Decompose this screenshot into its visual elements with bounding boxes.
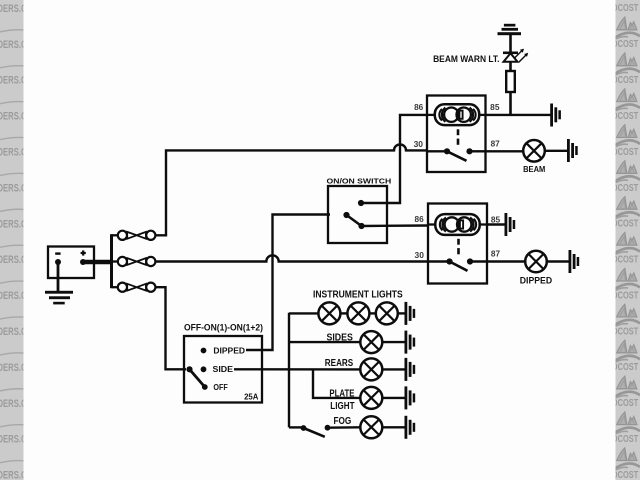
wire main distribution vertical	[288, 313, 290, 428]
svg-text:OCOST: OCOST	[612, 39, 639, 50]
wire F1 to relay1 pin 30 (with hop over 86 wire)	[155, 144, 427, 235]
wire F2 to relay2 pin 30	[155, 255, 428, 261]
wire F3 to OFF-ON switch common	[155, 287, 186, 369]
fuse F2 (dipped circuit)	[112, 257, 156, 266]
svg-text:BEAM: BEAM	[523, 165, 545, 174]
ground chassis fog row	[405, 416, 416, 439]
switch S1 ON/ON box	[328, 186, 387, 243]
svg-text:ON/ON SWITCH: ON/ON SWITCH	[327, 177, 392, 186]
relay U2 pin labels	[415, 215, 501, 260]
ground earth above warn light	[498, 24, 522, 35]
wire battery plus to fuse bus (thick)	[83, 260, 113, 265]
wire fog switch to fog lamp	[328, 426, 361, 429]
svg-text:OCOST: OCOST	[612, 326, 639, 337]
wire DIPPED terminal to ON/ON common (with hop over F2 wire)	[246, 215, 330, 351]
lamp instrument 1	[318, 302, 340, 324]
svg-text:86: 86	[414, 103, 424, 112]
wire battery minus to ground	[57, 262, 60, 292]
svg-text:DERS.C: DERS.C	[0, 398, 27, 410]
svg-text:OCOST: OCOST	[612, 398, 639, 409]
relay U2 contact 30-87	[428, 258, 487, 270]
svg-text:DERS.C: DERS.C	[0, 75, 27, 87]
resistor R1 (warn light dropper)	[506, 71, 515, 92]
svg-text:DERS.C: DERS.C	[0, 362, 27, 374]
svg-text:85: 85	[491, 216, 501, 225]
svg-text:FOG: FOG	[334, 415, 352, 427]
svg-text:DERS.C: DERS.C	[0, 3, 27, 15]
ground battery earth	[45, 291, 73, 305]
svg-text:OCOST: OCOST	[612, 219, 639, 230]
relay U2 dashed link	[457, 239, 460, 255]
svg-text:86: 86	[415, 215, 425, 224]
wire relay1 pin 86 to ON/ON switch upper contact	[361, 115, 427, 203]
svg-text:DERS.C: DERS.C	[0, 470, 27, 480]
lamp instrument 3	[376, 302, 398, 324]
wire dipped lamp to earth	[547, 260, 569, 262]
svg-text:DIPPED: DIPPED	[520, 275, 552, 285]
relay U1 dashed link	[457, 129, 460, 145]
ground chassis right of dipped lamp	[569, 250, 580, 273]
wire SIDE output to rears lamp (through junctions)	[234, 368, 361, 371]
svg-text:DERS.C: DERS.C	[0, 326, 27, 338]
lamp instrument 2	[347, 302, 369, 324]
wire resistor to LED	[509, 62, 512, 71]
lamp REARS	[360, 358, 382, 380]
svg-text:87: 87	[491, 139, 500, 148]
switch S3 fog	[289, 425, 330, 437]
svg-text:DERS.C: DERS.C	[0, 39, 27, 51]
lamp SIDES	[360, 331, 382, 353]
ground chassis sides row	[405, 331, 416, 354]
wire sides row	[289, 341, 360, 343]
wire plate light branch	[313, 369, 360, 398]
wire beam lamp to earth	[545, 150, 568, 152]
switch S2 contacts and labels	[186, 346, 258, 401]
svg-text:DERS.C: DERS.C	[0, 182, 27, 194]
wire fuse bus vertical	[110, 234, 113, 288]
svg-text:OCOST: OCOST	[612, 147, 639, 158]
lamp FOG	[360, 416, 382, 438]
svg-text:OFF-ON(1)-ON(1+2): OFF-ON(1)-ON(1+2)	[184, 321, 263, 332]
svg-text:30: 30	[414, 140, 424, 149]
fuse F1 (beam circuit)	[112, 231, 156, 240]
lamp DIPPED	[525, 251, 547, 273]
ground chassis right of relay2 85	[505, 213, 516, 236]
LED D1 beam warn light	[503, 49, 528, 62]
svg-text:BEAM WARN LT.: BEAM WARN LT.	[433, 54, 499, 65]
svg-text:85: 85	[490, 103, 500, 112]
svg-text:DERS.C: DERS.C	[0, 434, 27, 446]
svg-text:REARS: REARS	[325, 357, 353, 369]
svg-text:LIGHT: LIGHT	[330, 400, 355, 412]
svg-text:DIPPED: DIPPED	[213, 346, 245, 355]
lamp BEAM	[523, 140, 545, 162]
ground chassis plate row	[405, 386, 416, 409]
svg-text:SIDE: SIDE	[213, 365, 234, 374]
svg-text:DERS.C: DERS.C	[0, 290, 27, 302]
svg-text:DERS.C: DERS.C	[0, 147, 27, 159]
svg-text:87: 87	[491, 249, 500, 258]
svg-text:OCOST: OCOST	[612, 255, 639, 266]
wire relay2 87 to dipped lamp	[487, 260, 525, 262]
wire LED to top earth	[509, 35, 512, 53]
svg-text:30: 30	[415, 251, 425, 260]
svg-text:PLATE: PLATE	[329, 388, 354, 400]
wire ON/ON lower contact to relay2 pin 86	[362, 224, 429, 227]
svg-text:DERS.C: DERS.C	[0, 254, 27, 266]
svg-text:25A: 25A	[244, 392, 259, 401]
svg-text:OCOST: OCOST	[612, 75, 639, 86]
relay U1 pin labels	[414, 103, 501, 149]
svg-text:OCOST: OCOST	[612, 434, 639, 445]
ground chassis instrument row	[405, 302, 416, 325]
svg-text:OCOST: OCOST	[612, 111, 639, 122]
svg-text:DERS.C: DERS.C	[0, 111, 27, 123]
wire rears lamp to earth	[382, 368, 405, 370]
ground chassis right of relay1 85	[550, 104, 561, 127]
svg-text:OCOST: OCOST	[612, 3, 639, 14]
svg-text:OFF: OFF	[213, 383, 228, 392]
svg-text:OCOST: OCOST	[612, 470, 639, 480]
svg-text:DERS.C: DERS.C	[0, 218, 27, 230]
relay U1 coil	[427, 104, 486, 125]
relay U1 contact 30-87	[427, 148, 486, 161]
wire plate lamp to earth	[382, 397, 405, 399]
ground chassis rears row	[405, 358, 416, 381]
relay U1 (beam relay) box	[427, 96, 486, 173]
wire relay1 85 to earth (junction with warn light)	[486, 114, 552, 116]
svg-text:OCOST: OCOST	[612, 362, 639, 373]
ground chassis right of beam lamp	[567, 139, 578, 162]
battery B1	[48, 247, 94, 279]
wire fog lamp to earth	[382, 426, 405, 428]
wire warn light chain vertical	[509, 92, 512, 115]
fuse F3 (side lights circuit)	[112, 283, 156, 292]
switch S2 OFF-ON(1)-ON(1+2) box	[184, 336, 262, 403]
svg-text:OCOST: OCOST	[612, 183, 639, 194]
svg-text:INSTRUMENT LIGHTS: INSTRUMENT LIGHTS	[313, 290, 403, 301]
relay U2 (dipped relay) box	[428, 204, 487, 284]
wire relay2 85 to earth	[487, 223, 505, 225]
wire relay1 87 to beam lamp	[486, 150, 524, 152]
lamp PLATE	[360, 387, 382, 409]
switch S1 contacts	[343, 200, 364, 229]
wire instrument lights row	[289, 312, 319, 314]
relay U2 coil	[428, 214, 487, 235]
svg-text:OCOST: OCOST	[612, 290, 639, 301]
